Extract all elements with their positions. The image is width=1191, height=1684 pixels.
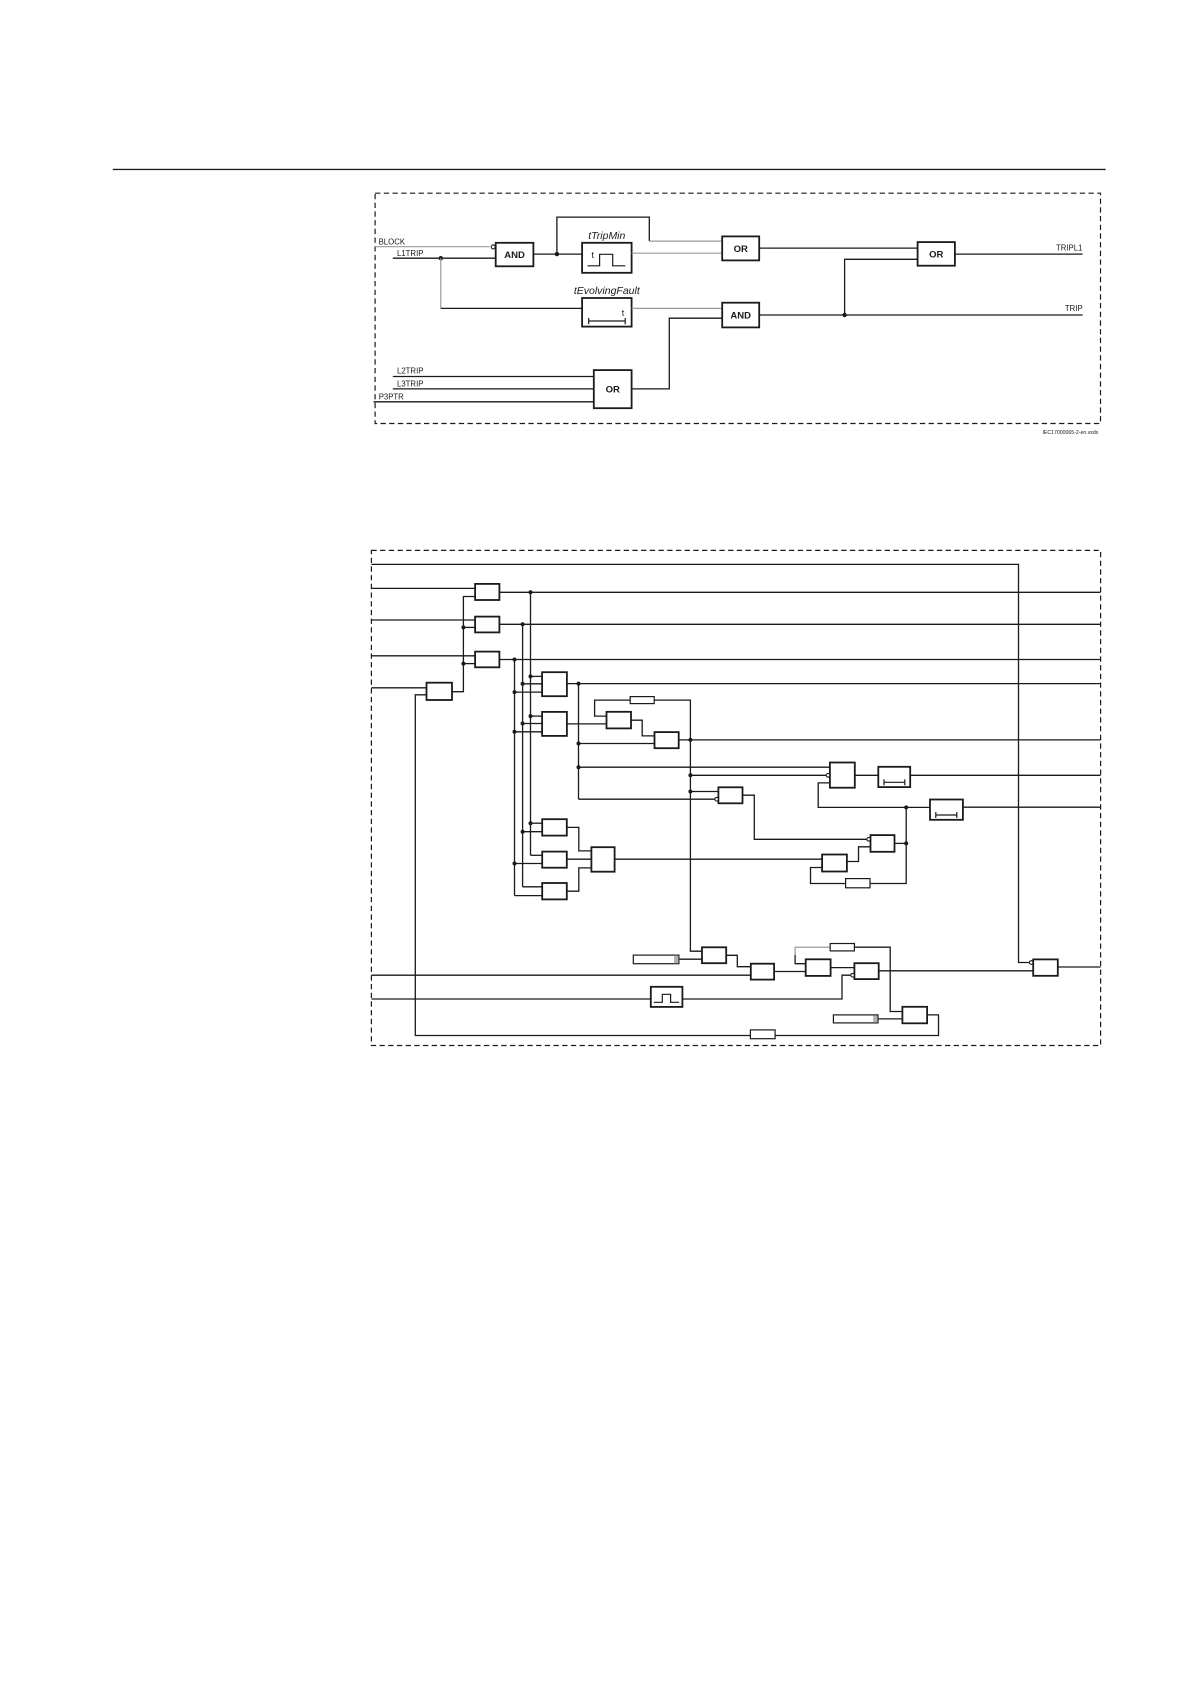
wire input line 6 xyxy=(371,974,750,976)
gate G22 xyxy=(1033,959,1058,975)
wire G5 output row xyxy=(567,683,1101,685)
wire G12 output step to G10 input 1 xyxy=(743,795,867,839)
wire bus C stub to G5 xyxy=(515,691,543,693)
wire G2 output row xyxy=(499,623,1100,625)
svg-text:AND: AND xyxy=(504,250,525,261)
junction bus C at G6 xyxy=(513,730,517,734)
gate G8 xyxy=(655,732,679,748)
gate G19 xyxy=(806,959,831,976)
wire bus B stub to G5 xyxy=(523,683,543,685)
junction bus A at G6 xyxy=(529,714,533,718)
wire G17 output step to G18 xyxy=(726,955,751,966)
junction on L1TRIP xyxy=(439,256,443,260)
wire feedback into OR U2 xyxy=(649,240,722,242)
wire bus A stub to G5 xyxy=(531,675,543,677)
gate G15 xyxy=(542,883,567,899)
wire vertical bus B from G2 output xyxy=(522,624,524,887)
wire G16 output to G11 input 1 xyxy=(615,858,823,860)
wire L1TRIP branch down xyxy=(440,258,442,308)
wire G22 output xyxy=(1058,966,1101,968)
timer tTripMin xyxy=(582,243,632,273)
wire U1 output xyxy=(533,253,582,255)
svg-text:L2TRIP: L2TRIP xyxy=(397,366,423,375)
junction on U1 output xyxy=(555,252,559,256)
gate G13 xyxy=(542,819,567,835)
svg-text:OR: OR xyxy=(929,249,943,260)
top rule xyxy=(113,169,1106,170)
wire F1 left leg to G7 input 1 xyxy=(595,700,631,716)
junction bus B at G5 xyxy=(521,682,525,686)
junction riser to G2 xyxy=(461,625,465,629)
wire vertical bus C from G3 output xyxy=(514,660,516,896)
wire input line 4 xyxy=(371,655,475,657)
junction bus B at G13 xyxy=(521,830,525,834)
setting box F1 xyxy=(630,697,654,704)
frame (dashed border of trip logic diagram 1) xyxy=(375,193,1100,423)
wire bus C stub to G15 xyxy=(515,895,543,897)
junction bus C at G5 xyxy=(513,690,517,694)
junction bus A top xyxy=(529,590,533,594)
junction node N top xyxy=(904,805,908,809)
wire BLOCK input xyxy=(375,246,490,248)
gate G5 xyxy=(542,672,567,696)
svg-text:L1TRIP: L1TRIP xyxy=(397,249,423,258)
wire bus B stub to G6 xyxy=(523,723,543,725)
wire tTripMin output to OR U2 xyxy=(632,252,723,254)
setting box S1 xyxy=(633,955,679,964)
wire G15 output step to G16 xyxy=(567,868,592,891)
wire L1TRIP input xyxy=(393,257,496,259)
wire to tEvolvingFault input xyxy=(441,307,582,309)
svg-text:L3TRIP: L3TRIP xyxy=(397,379,423,388)
gate G18 xyxy=(751,964,774,980)
junction bus E at G12 xyxy=(688,790,692,794)
wire branch up to OR U4 xyxy=(845,259,918,315)
wire G6 output to G7 xyxy=(567,723,607,725)
wire bus D stub to G8 xyxy=(579,743,655,745)
gate G17 xyxy=(702,947,726,963)
timer T1 xyxy=(878,767,910,787)
and-gate U1 xyxy=(496,243,534,266)
junction bus E at G9 row xyxy=(688,773,692,777)
wire U2 output to OR U4 xyxy=(759,247,917,249)
wire stub riser to G3 xyxy=(463,663,475,665)
gate G20 xyxy=(854,963,878,979)
wire G7 output step to G8 xyxy=(631,720,655,736)
wire U3 output TRIP line xyxy=(759,314,1082,316)
wire bus B stub to G15 xyxy=(523,886,543,888)
junction bus D at G9 row xyxy=(577,765,581,769)
gate G4 xyxy=(427,683,453,700)
wire G14 output to G16 xyxy=(567,858,592,860)
wire U5 output up to AND U3 xyxy=(632,318,723,389)
inverted input bubble G9 xyxy=(826,774,830,778)
junction bus E at G8 output xyxy=(688,738,692,742)
svg-text:OR: OR xyxy=(734,244,748,255)
inverted input bubble G12 xyxy=(715,797,719,801)
svg-text:OR: OR xyxy=(606,385,620,396)
setting box F3 xyxy=(750,1030,775,1039)
wire stub riser to G2 xyxy=(463,626,475,628)
svg-text:TRIP: TRIP xyxy=(1065,304,1083,313)
or-gate U4 xyxy=(918,242,955,266)
junction node N at G10 output xyxy=(904,841,908,845)
gate G7 xyxy=(607,712,632,729)
junction bus D top xyxy=(577,682,581,686)
svg-text:BLOCK: BLOCK xyxy=(379,237,406,246)
inverted input bubble G22 xyxy=(1029,961,1033,965)
wire input line 2 xyxy=(371,587,475,589)
timer T2 xyxy=(930,800,963,820)
or-gate U5 xyxy=(594,370,632,408)
wire node N vertical with G10 output stub xyxy=(811,807,907,883)
wire bus E stub to G12 input 1 xyxy=(690,791,718,793)
pulse box P1 xyxy=(651,987,683,1007)
inverted input bubble on AND U1 xyxy=(491,245,495,249)
wire bus D to G12 input 2 xyxy=(579,798,716,800)
gate G3 xyxy=(475,652,499,668)
wire G3 output row xyxy=(499,659,1100,661)
svg-text:tEvolvingFault: tEvolvingFault xyxy=(574,285,641,297)
svg-text:tTripMin: tTripMin xyxy=(588,230,625,242)
wire L3TRIP input xyxy=(393,388,594,390)
wire G13 output step to G16 xyxy=(567,827,592,851)
wire G9 input 3 from node N xyxy=(818,783,930,808)
junction bus A at G13 xyxy=(529,821,533,825)
gate G16 xyxy=(591,847,614,872)
wire G4 output riser to G1 G2 G3 xyxy=(452,597,475,692)
wire input line 5 xyxy=(371,687,426,689)
wire tEvolvingFault output to AND U3 xyxy=(632,307,723,309)
wire F2 net to G19 input 1 and G21 input 1 xyxy=(795,955,806,964)
wire G4 second input feedback riser xyxy=(415,695,938,1036)
wire G9 output to timer T1 xyxy=(855,774,879,776)
wire feedback over tTripMin to OR U2 xyxy=(557,217,649,254)
wire U4 output TRIPL1 xyxy=(955,253,1083,255)
wire bus B stub to G13 xyxy=(523,831,543,833)
junction bus C at G14 xyxy=(513,862,517,866)
junction bus B at G6 xyxy=(521,722,525,726)
junction on TRIP line xyxy=(842,313,846,317)
timer tEvolvingFault xyxy=(582,298,632,327)
or-gate U2 xyxy=(722,236,759,260)
wire G20 output to G22 input 2 xyxy=(879,970,1033,972)
gate G6 xyxy=(542,712,567,736)
wire bus A stub to G6 xyxy=(531,715,543,717)
junction riser to G3 xyxy=(461,662,465,666)
gate G1 xyxy=(475,584,499,600)
wire G19 output to G20 xyxy=(831,967,855,969)
wire L2TRIP input xyxy=(393,376,594,378)
wire input line 3 xyxy=(371,619,475,621)
wire vertical bus A from G1 output xyxy=(530,592,532,855)
wire F1 right leg vertical bus E xyxy=(654,700,702,951)
wire G10 output to node N xyxy=(895,842,907,844)
wire input line 7 through pulse box xyxy=(371,975,852,999)
svg-text:TRIPL1: TRIPL1 xyxy=(1056,243,1082,252)
wire bus C stub to G6 xyxy=(515,731,543,733)
setting box F2 xyxy=(830,944,854,951)
gate G10 xyxy=(871,835,895,852)
wire T1 output row xyxy=(910,774,1100,776)
junction bus B top xyxy=(521,622,525,626)
wire S1 to G17 xyxy=(679,958,702,960)
junction bus C top xyxy=(513,658,517,662)
gate G2 xyxy=(475,617,499,633)
wire G18 output to G19 xyxy=(774,971,806,973)
svg-text:P3PTR: P3PTR xyxy=(379,392,404,401)
wire vertical bus D from G5 output xyxy=(578,684,580,800)
gate G14 xyxy=(542,852,567,868)
wire G8 output row xyxy=(679,739,1101,741)
gate G12 xyxy=(718,787,742,803)
wire P3PTR input xyxy=(374,401,594,403)
gate G9 xyxy=(830,763,855,788)
wire bus A stub to G14 xyxy=(531,854,543,856)
inverted input bubble G10 xyxy=(867,838,871,842)
wire input line 1 (top) to right column xyxy=(371,564,1031,962)
junction bus A at G5 xyxy=(529,674,533,678)
inverted input bubble G20 xyxy=(851,973,855,977)
frame (dashed border of logic diagram 2) xyxy=(371,550,1100,1045)
wire S2 to G21 xyxy=(878,1018,902,1020)
and-gate U3 xyxy=(722,303,759,328)
setting box S2 xyxy=(833,1015,878,1023)
svg-text:IEC17000065-2-en.vsdx: IEC17000065-2-en.vsdx xyxy=(1042,430,1098,436)
wire G11 output loop to G10 input 2 xyxy=(847,847,871,862)
gate G11 xyxy=(822,855,847,872)
wire bus D to G9 input 1 xyxy=(579,766,830,768)
setting box F4 xyxy=(846,879,870,888)
wire G1 output row xyxy=(499,591,1100,593)
gate G21 xyxy=(902,1007,927,1024)
junction bus D at G8 xyxy=(577,742,581,746)
wire bus C stub to G14 xyxy=(515,863,543,865)
wire bus E to G9 input 2 xyxy=(690,774,826,776)
wire T2 output row xyxy=(963,806,1101,808)
svg-text:AND: AND xyxy=(730,310,751,321)
wire bus A stub to G13 xyxy=(531,822,543,824)
